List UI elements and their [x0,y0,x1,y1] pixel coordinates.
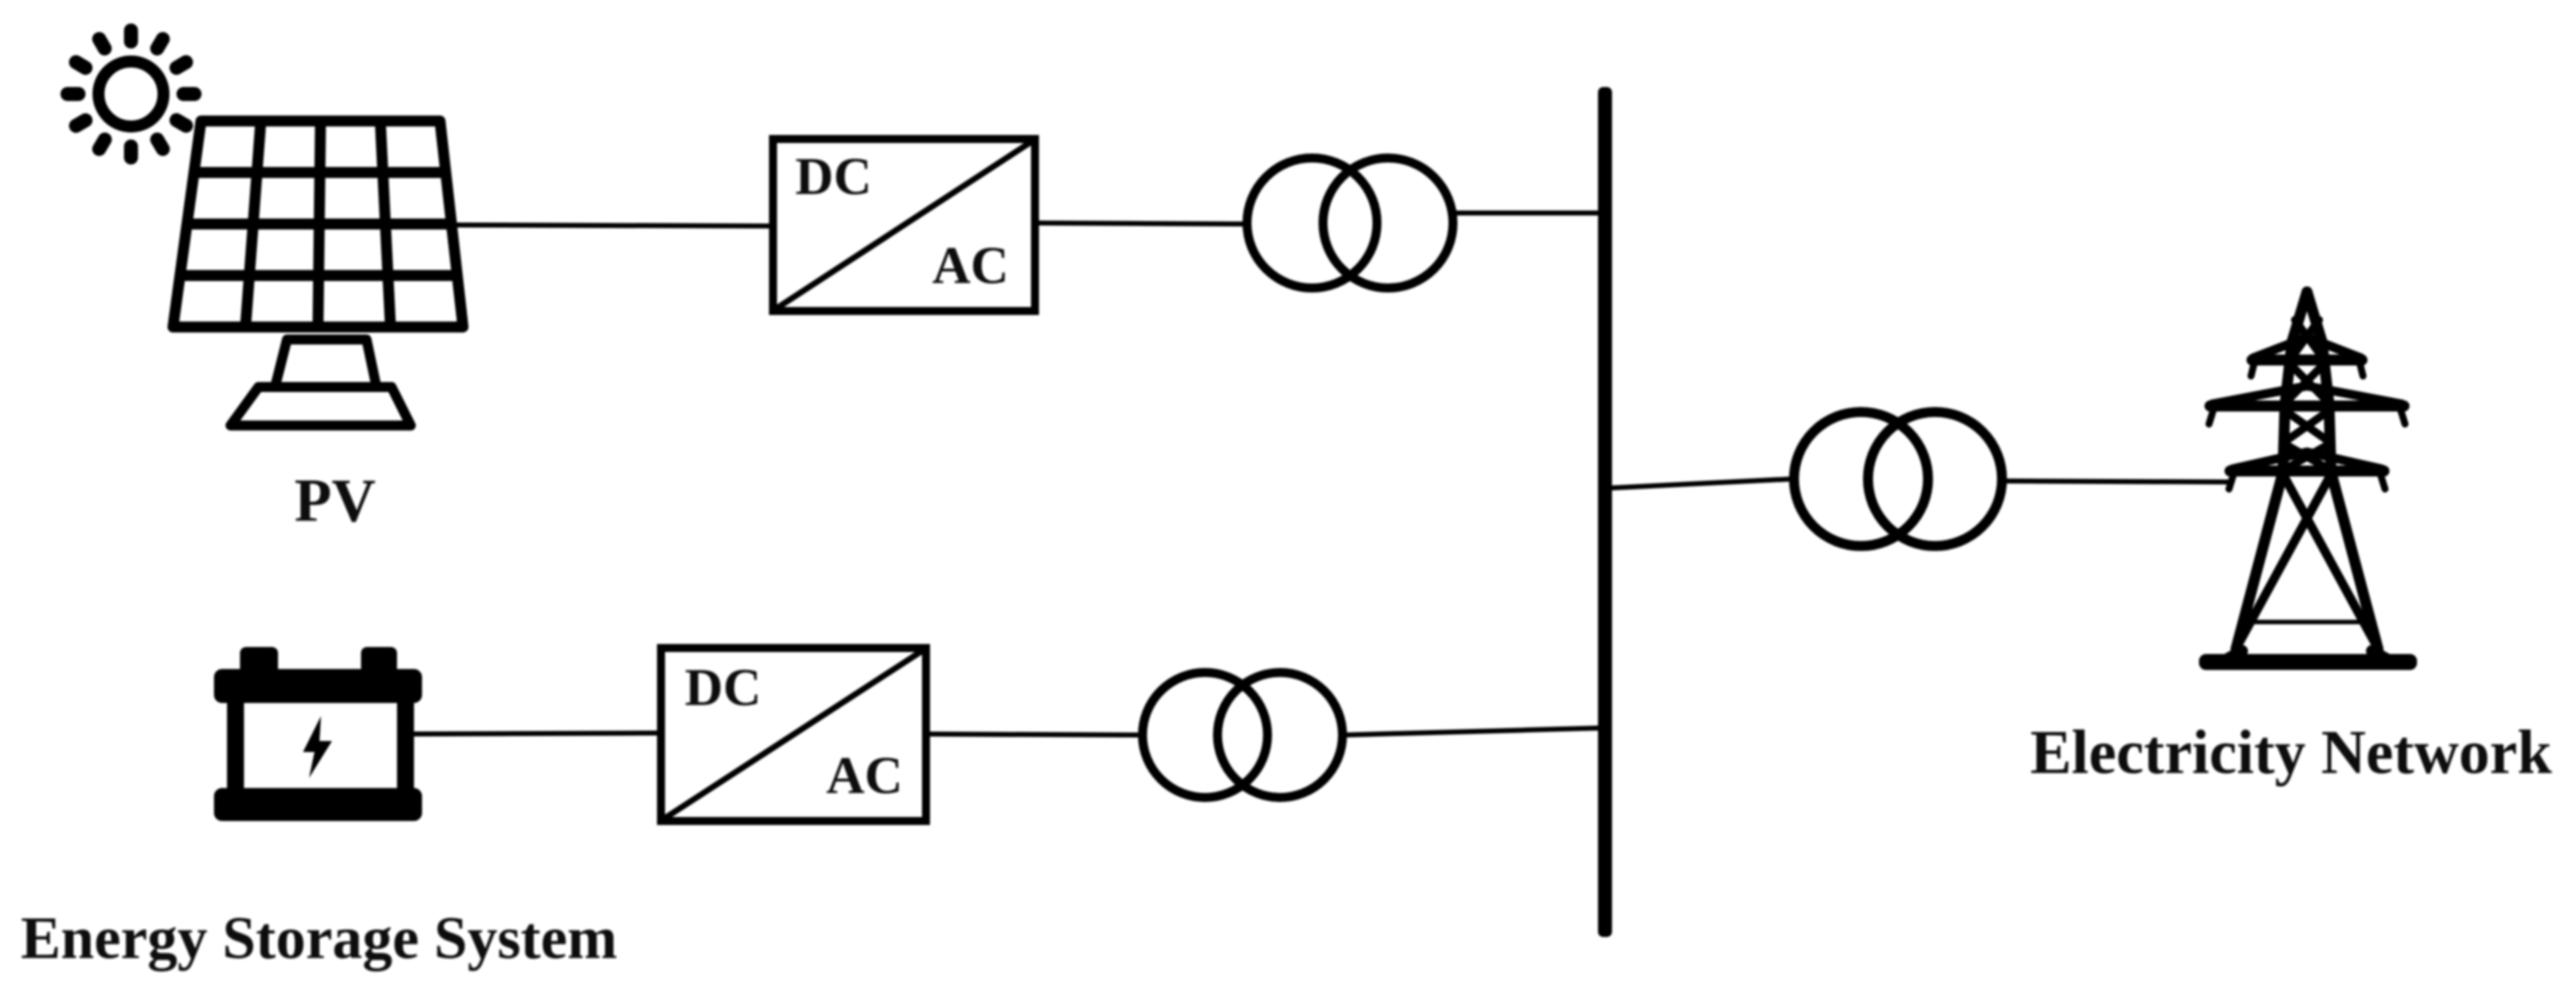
svg-text:PV: PV [294,468,375,535]
svg-text:DC: DC [685,659,762,717]
svg-text:AC: AC [826,747,903,805]
svg-text:AC: AC [932,237,1009,295]
svg-text:DC: DC [795,148,872,206]
svg-text:Electricity Network: Electricity Network [2030,719,2552,787]
svg-text:Energy Storage System: Energy Storage System [21,905,618,971]
